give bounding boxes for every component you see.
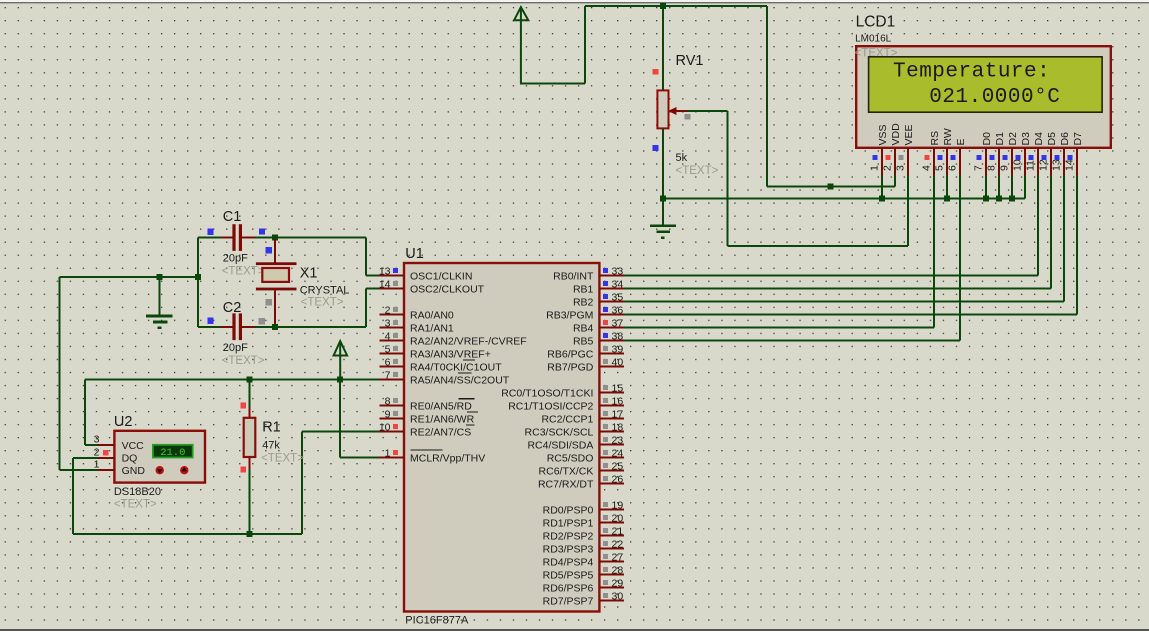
U1 pin 1 state square [393, 450, 398, 455]
svg-text:LCD1: LCD1 [856, 14, 896, 31]
svg-text:RA2/AN2/VREF-/CVREF: RA2/AN2/VREF-/CVREF [410, 335, 527, 347]
U1 pin 6 (RA4/T0CKI/C1OUT) [380, 366, 405, 368]
U1 pin 17 state square [603, 411, 608, 416]
LCD pin 12 state square [1041, 155, 1046, 160]
svg-text:2: 2 [94, 446, 100, 458]
svg-text:RC4/SDI/SDA: RC4/SDI/SDA [527, 439, 593, 451]
svg-text:3: 3 [385, 318, 391, 330]
svg-text:10: 10 [1011, 159, 1023, 171]
U1 pin 26 state square [603, 476, 608, 481]
junction MCLR arrow [337, 377, 343, 383]
U1 pin 29 (RD6/PSP6) [599, 587, 624, 589]
wire LCD pin to ground [1011, 175, 1013, 198]
svg-text:RB5: RB5 [573, 335, 594, 347]
wire R1 bottom [249, 469, 251, 534]
junction RW [944, 195, 950, 201]
wire RB3 to D7 [624, 314, 1077, 316]
svg-text:39: 39 [612, 344, 624, 356]
U2 down button [156, 466, 164, 474]
LCD screen [869, 57, 1103, 112]
U1 pin 8 state square [393, 398, 398, 403]
LCD pin 8 D1 [998, 148, 1000, 175]
wire C2 left [198, 326, 221, 328]
LCD pin 10 state square [1015, 155, 1020, 160]
svg-text:<TEXT>: <TEXT> [222, 266, 265, 278]
svg-text:21.0: 21.0 [160, 447, 185, 459]
wire D4 to RB0 [1037, 175, 1039, 276]
microcontroller U1 body [404, 263, 599, 612]
svg-text:021.0000°C: 021.0000°C [929, 86, 1060, 109]
svg-text:RW: RW [942, 128, 954, 145]
wire DQ vertical [72, 458, 74, 534]
U1 pin 24 (RC5/SDO) [599, 457, 624, 459]
U1 pin 23 (RC4/SDI/SDA) [599, 444, 624, 446]
wire OSC1 rail down [365, 238, 367, 276]
svg-text:4: 4 [920, 165, 932, 171]
svg-text:9: 9 [385, 409, 391, 421]
wire to OSC2 rail [275, 326, 366, 328]
U1 pin 19 state square [603, 502, 608, 507]
LCD pin 3 state square [898, 155, 903, 160]
U1 pin 16 state square [603, 398, 608, 403]
svg-text:D7: D7 [1072, 132, 1084, 146]
wire LCD pin to ground [1024, 175, 1026, 198]
wire LCD pin to ground [985, 175, 987, 198]
U1 pin 2 (RA0/AN0) [380, 314, 405, 316]
svg-text:D4: D4 [1033, 132, 1045, 146]
svg-text:Temperature:: Temperature: [893, 60, 1050, 83]
svg-text:25: 25 [612, 461, 624, 473]
junction ground left [157, 274, 163, 280]
wire to U2 GND [60, 469, 99, 471]
svg-text:RV1: RV1 [676, 53, 704, 69]
U1 pin 39 (RB6/PGC) [599, 353, 624, 355]
wire D7 to RB3 [1076, 175, 1078, 315]
svg-text:RD2/PSP2: RD2/PSP2 [543, 530, 594, 542]
U1 pin 18 (RC3/SCK/SCL) [599, 431, 624, 433]
U1 pin 40 state square [603, 359, 608, 364]
U1 pin 22 state square [603, 541, 608, 546]
svg-text:7: 7 [385, 370, 391, 382]
U1 pin 27 (RD4/PSP4) [599, 561, 624, 563]
U1 pin 36 state square [603, 307, 608, 312]
U1 pin 37 state square [603, 320, 608, 325]
LCD pin 11 D4 [1037, 148, 1039, 175]
U1 pin 25 (RC6/TX/CK) [599, 470, 624, 472]
svg-text:21: 21 [612, 526, 624, 538]
svg-text:RA5/AN4/SS/C2OUT: RA5/AN4/SS/C2OUT [410, 374, 510, 386]
svg-text:6: 6 [385, 357, 391, 369]
LCD pin 14 state square [1067, 155, 1072, 160]
U1 pin 21 (RD2/PSP2) [599, 535, 624, 537]
wire VDD to top rail [766, 6, 768, 187]
wire MCLR vertical [339, 380, 341, 458]
wire from U2 DQ [73, 457, 98, 459]
C2 right state square [259, 318, 265, 324]
svg-text:PIC16F877A: PIC16F877A [405, 615, 469, 627]
svg-text:RD5/PSP5: RD5/PSP5 [543, 569, 594, 581]
wire RB0/INT to D4 [624, 275, 1038, 277]
ground symbol (near RV1) [650, 226, 676, 238]
U1 pin 20 state square [603, 515, 608, 520]
U1 pin 15 (RC0/T1OSO/T1CKI) [599, 392, 624, 394]
U1 pin 8 (RE0/AN5/RD) [380, 405, 405, 407]
U1 pin 3 (RA1/AN1) [380, 327, 405, 329]
U1 pin 38 (RB5) [599, 340, 624, 342]
wire C1 left [198, 237, 221, 239]
U1 pin 4 state square [393, 333, 398, 338]
U1 pin 27 state square [603, 554, 608, 559]
svg-text:12: 12 [1037, 159, 1049, 171]
svg-text:<TEXT>: <TEXT> [301, 297, 344, 309]
junction left rail [195, 274, 201, 280]
svg-text:18: 18 [612, 422, 624, 434]
RV1 wiper state square [685, 114, 691, 120]
svg-text:5: 5 [385, 344, 391, 356]
U1 pin 40 (RB7/PGD) [599, 366, 624, 368]
svg-text:1: 1 [94, 459, 100, 471]
U1 pin 23 state square [603, 437, 608, 442]
U2 up button [180, 466, 188, 474]
wire ground rail [663, 197, 1025, 199]
svg-text:<TEXT>: <TEXT> [222, 355, 265, 367]
svg-text:RB4: RB4 [573, 322, 594, 334]
svg-text:VEE: VEE [903, 124, 915, 145]
svg-text:28: 28 [612, 565, 624, 577]
wire D6 to RB2 [1063, 175, 1065, 302]
junction R1 top [247, 377, 253, 383]
U1 pin 16 (RC1/T1OSI/CCP2) [599, 405, 624, 407]
svg-text:14: 14 [379, 279, 391, 291]
wire LCD pin to ground [998, 175, 1000, 198]
svg-text:3: 3 [94, 434, 100, 446]
overline /C1 (RA4 row) [463, 359, 475, 361]
svg-text:RA1/AN1: RA1/AN1 [410, 322, 454, 334]
U1 pin 10 state square [393, 424, 398, 429]
U1 pin 3 state square [393, 320, 398, 325]
wire to OSC1 pin [366, 275, 381, 277]
RV1 wiper arrow [668, 107, 677, 115]
svg-text:VDD: VDD [890, 123, 902, 146]
wire LCD pin to ground [946, 175, 948, 198]
C1 left pin [221, 237, 232, 239]
X1 bottom state square [266, 299, 272, 305]
LCD pin 10 D3 [1024, 148, 1026, 175]
LCD pin 11 state square [1028, 155, 1033, 160]
R1 bottom lead [249, 457, 251, 471]
svg-text:19: 19 [612, 500, 624, 512]
svg-text:3: 3 [894, 165, 906, 171]
wire to U2 VCC [85, 444, 98, 446]
C1 right state square [259, 228, 265, 234]
U1 pin 24 state square [603, 450, 608, 455]
U1 pin 1 (MCLR/Vpp/THV) [380, 457, 405, 459]
svg-text:16: 16 [612, 396, 624, 408]
R1 top marker [240, 403, 246, 409]
X1 top state square [266, 247, 272, 253]
U1 pin 26 (RC7/RX/DT) [599, 483, 624, 485]
U1 pin 2 state square [393, 307, 398, 312]
wire to OSC1 rail [275, 237, 366, 239]
svg-text:14: 14 [1063, 159, 1075, 171]
U1 pin 33 (RB0/INT) [599, 275, 624, 277]
LCD pin 14 D7 [1076, 148, 1078, 175]
svg-text:1: 1 [868, 165, 880, 171]
LCD pin 13 D6 [1063, 148, 1065, 175]
junction D0 [983, 195, 989, 201]
wire R1 top [249, 380, 251, 410]
svg-text:6: 6 [946, 165, 958, 171]
svg-text:<TEXT>: <TEXT> [676, 165, 719, 177]
C1 right pin [242, 237, 255, 239]
U1 pin 4 (RA2/AN2/VREF-/CVREF) [380, 340, 405, 342]
wire RB5 to E [624, 340, 960, 342]
overline WR (RE1 row) [467, 411, 478, 413]
svg-text:OSC2/CLKOUT: OSC2/CLKOUT [410, 283, 485, 295]
svg-text:D3: D3 [1020, 132, 1032, 146]
U1 pin 9 state square [393, 411, 398, 416]
svg-text:RC7/RX/DT: RC7/RX/DT [538, 478, 594, 490]
svg-text:CRYSTAL: CRYSTAL [300, 285, 350, 297]
svg-text:RC1/T1OSI/CCP2: RC1/T1OSI/CCP2 [508, 400, 593, 412]
R1 top lead [249, 407, 251, 418]
U1 pin 28 (RD5/PSP5) [599, 574, 624, 576]
U1 pin 9 (RE1/AN6/WR) [380, 418, 405, 420]
svg-text:RB3/PGM: RB3/PGM [546, 309, 593, 321]
U2 pin 3 VCC [98, 444, 114, 446]
U1 pin 35 state square [603, 294, 608, 299]
overline CS (RE2 row) [466, 424, 475, 426]
LCD pin 7 state square [976, 155, 981, 160]
svg-text:RB6/PGC: RB6/PGC [547, 348, 594, 360]
wire VCC vertical [84, 380, 86, 446]
wire [585, 5, 767, 7]
junction R1 bottom [247, 531, 253, 537]
svg-text:20: 20 [612, 513, 624, 525]
svg-text:20pF: 20pF [223, 342, 248, 354]
svg-text:<TEXT>: <TEXT> [114, 499, 157, 511]
C1 left state square [208, 229, 214, 235]
U1 pin 19 (RD0/PSP0) [599, 509, 624, 511]
svg-text:VCC: VCC [122, 440, 145, 452]
LCD pin 4 RS [933, 148, 935, 175]
U1 pin 5 (RA3/AN3/VREF+) [380, 353, 405, 355]
svg-text:37: 37 [612, 318, 624, 330]
svg-text:VSS: VSS [877, 124, 889, 145]
U1 pin 30 state square [603, 593, 608, 598]
LCD pin 4 state square [924, 155, 929, 160]
svg-text:RD7/PSP7: RD7/PSP7 [543, 595, 594, 607]
svg-text:15: 15 [612, 383, 624, 395]
svg-text:7: 7 [972, 165, 984, 171]
LCD pin 9 D2 [1011, 148, 1013, 175]
LCD pin 1 VSS [881, 148, 883, 175]
sensor U2 DS18B20 body [114, 431, 205, 483]
svg-text:RD4/PSP4: RD4/PSP4 [543, 556, 594, 568]
wire OSC2 rail up [365, 289, 367, 327]
svg-text:RD1/PSP1: RD1/PSP1 [543, 517, 594, 529]
junction D1 [996, 195, 1002, 201]
svg-text:RA0/AN0: RA0/AN0 [410, 309, 454, 321]
svg-text:RB7/PGD: RB7/PGD [547, 361, 594, 373]
U1 pin 7 state square [393, 372, 398, 377]
svg-text:RA4/T0CKI/C1OUT: RA4/T0CKI/C1OUT [410, 361, 502, 373]
svg-text:X1: X1 [300, 266, 318, 282]
junction VSS [879, 195, 885, 201]
wire RS to RB4 [933, 175, 935, 328]
U2 temperature display [153, 445, 193, 458]
overline SS (RA5 row) [458, 372, 472, 374]
wire C1 right [255, 237, 275, 239]
wire RV1 bottom to ground rail [662, 128, 664, 198]
svg-text:20pF: 20pF [223, 253, 248, 265]
svg-text:30: 30 [612, 591, 624, 603]
svg-text:RC5/SDO: RC5/SDO [547, 452, 594, 464]
svg-text:13: 13 [1050, 159, 1062, 171]
svg-text:1: 1 [385, 448, 391, 460]
R1 bottom marker [240, 467, 246, 473]
LCD pin 13 state square [1054, 155, 1059, 160]
svg-text:DS18B20: DS18B20 [114, 486, 161, 498]
wire RB4 to RS [624, 327, 934, 329]
wire to OSC2 pin [366, 288, 381, 290]
svg-text:RD6/PSP6: RD6/PSP6 [543, 582, 594, 594]
svg-text:2: 2 [385, 305, 391, 317]
svg-text:2: 2 [881, 165, 893, 171]
svg-text:E: E [955, 138, 967, 145]
wire DQ bus [73, 533, 302, 535]
wire GND left vertical [59, 277, 61, 470]
U1 pin 14 (OSC2/CLKOUT) [380, 288, 405, 290]
svg-text:DQ: DQ [122, 453, 138, 465]
svg-text:27: 27 [612, 552, 624, 564]
wire E to RB5 [959, 175, 961, 341]
svg-text:33: 33 [612, 266, 624, 278]
U2 pin 2 DQ [98, 457, 114, 459]
U2 DQ state square [103, 450, 109, 456]
svg-text:13: 13 [379, 266, 391, 278]
svg-text:23: 23 [612, 435, 624, 447]
svg-text:8: 8 [985, 165, 997, 171]
svg-text:RC2/CCP1: RC2/CCP1 [541, 413, 593, 425]
C2 left pin [221, 326, 232, 328]
U1 pin 18 state square [603, 424, 608, 429]
svg-text:D5: D5 [1046, 132, 1058, 146]
U1 pin 10 (RE2/AN7/CS) [380, 431, 405, 433]
LCD pin 8 state square [989, 155, 994, 160]
overline MCLR (pin1 row) [411, 449, 443, 451]
X1 top lead [274, 239, 276, 262]
U1 pin 29 state square [603, 580, 608, 585]
wire C2 right [255, 326, 275, 328]
svg-text:35: 35 [612, 292, 624, 304]
junction C2/X1 [272, 324, 278, 330]
svg-text:U1: U1 [405, 246, 424, 262]
svg-text:8: 8 [385, 396, 391, 408]
wire RB1 to D5 [624, 288, 1051, 290]
svg-text:17: 17 [612, 409, 624, 421]
U1 pin 25 state square [603, 463, 608, 468]
svg-text:40: 40 [612, 357, 624, 369]
U1 pin 38 state square [603, 333, 608, 338]
svg-text:RS: RS [929, 131, 941, 146]
U1 pin 5 state square [393, 346, 398, 351]
svg-text:D6: D6 [1059, 132, 1071, 146]
wire to MCLR pin [340, 457, 380, 459]
U1 pin 34 state square [603, 281, 608, 286]
LCD pin 6 E [959, 148, 961, 175]
RV1 wiper pin [676, 110, 688, 112]
U1 pin 17 (RC2/CCP1) [599, 418, 624, 420]
junction ground rail [660, 195, 666, 201]
svg-text:29: 29 [612, 578, 624, 590]
wire VDD [894, 175, 896, 187]
RV1 origin marker [653, 69, 659, 75]
power symbol VCC top [514, 7, 528, 84]
svg-text:11: 11 [1024, 160, 1036, 171]
wire VEE vertical [907, 175, 909, 246]
LCD pin 2 VDD [894, 148, 896, 175]
wire to ground [662, 198, 664, 224]
U1 pin 7 (RA5/AN4/SS/C2OUT) [380, 379, 405, 381]
svg-text:D2: D2 [1007, 132, 1019, 146]
wire to RE2 pin [302, 431, 381, 433]
LCD pin 3 VEE [907, 148, 909, 175]
LCD LCD1 body [856, 46, 1111, 148]
svg-text:C1: C1 [223, 209, 242, 225]
U1 pin 30 (RD7/PSP7) [599, 600, 624, 602]
svg-text:5: 5 [933, 165, 945, 171]
U1 pin 6 state square [393, 359, 398, 364]
wire DQ to RE2 riser [301, 432, 303, 535]
power symbol VCC (near U1) [334, 341, 348, 379]
svg-text:4: 4 [385, 331, 391, 343]
potentiometer RV1 [657, 90, 668, 128]
svg-text:38: 38 [612, 331, 624, 343]
wire VDD horizontal [767, 186, 895, 188]
LCD pin 2 state square [885, 155, 890, 160]
svg-text:RE1/AN6/WR: RE1/AN6/WR [410, 413, 475, 425]
svg-text:9: 9 [998, 165, 1010, 171]
U1 pin 33 state square [603, 268, 608, 273]
wire left rail [197, 238, 199, 327]
U1 pin 37 (RB4) [599, 327, 624, 329]
svg-text:24: 24 [612, 448, 624, 460]
svg-text:RC3/SCK/SCL: RC3/SCK/SCL [525, 426, 594, 438]
svg-text:D1: D1 [994, 132, 1006, 146]
capacitor C2 [232, 313, 235, 340]
wire to VEE [728, 245, 908, 247]
svg-text:MCLR/Vpp/THV: MCLR/Vpp/THV [410, 452, 485, 464]
svg-text:22: 22 [612, 539, 624, 551]
overline RD (RE0 row) [459, 398, 475, 400]
U1 pin 13 state square [393, 268, 398, 273]
wire ground bus left [60, 276, 199, 278]
svg-text:RC0/T1OSO/T1CKI: RC0/T1OSO/T1CKI [501, 387, 593, 399]
U1 pin 36 (RB3/PGM) [599, 314, 624, 316]
svg-text:GND: GND [122, 465, 146, 477]
C2 left state square [208, 318, 214, 324]
wire LCD pin to ground [881, 175, 883, 198]
LCD pin 5 RW [946, 148, 948, 175]
U1 pin 21 state square [603, 528, 608, 533]
wire D5 to RB1 [1050, 175, 1052, 289]
U2 pin 1 GND [98, 469, 114, 471]
svg-text:RB2: RB2 [573, 296, 594, 308]
svg-text:RC6/TX/CK: RC6/TX/CK [539, 465, 594, 477]
wire wiper [688, 110, 728, 112]
svg-text:C2: C2 [223, 300, 242, 316]
